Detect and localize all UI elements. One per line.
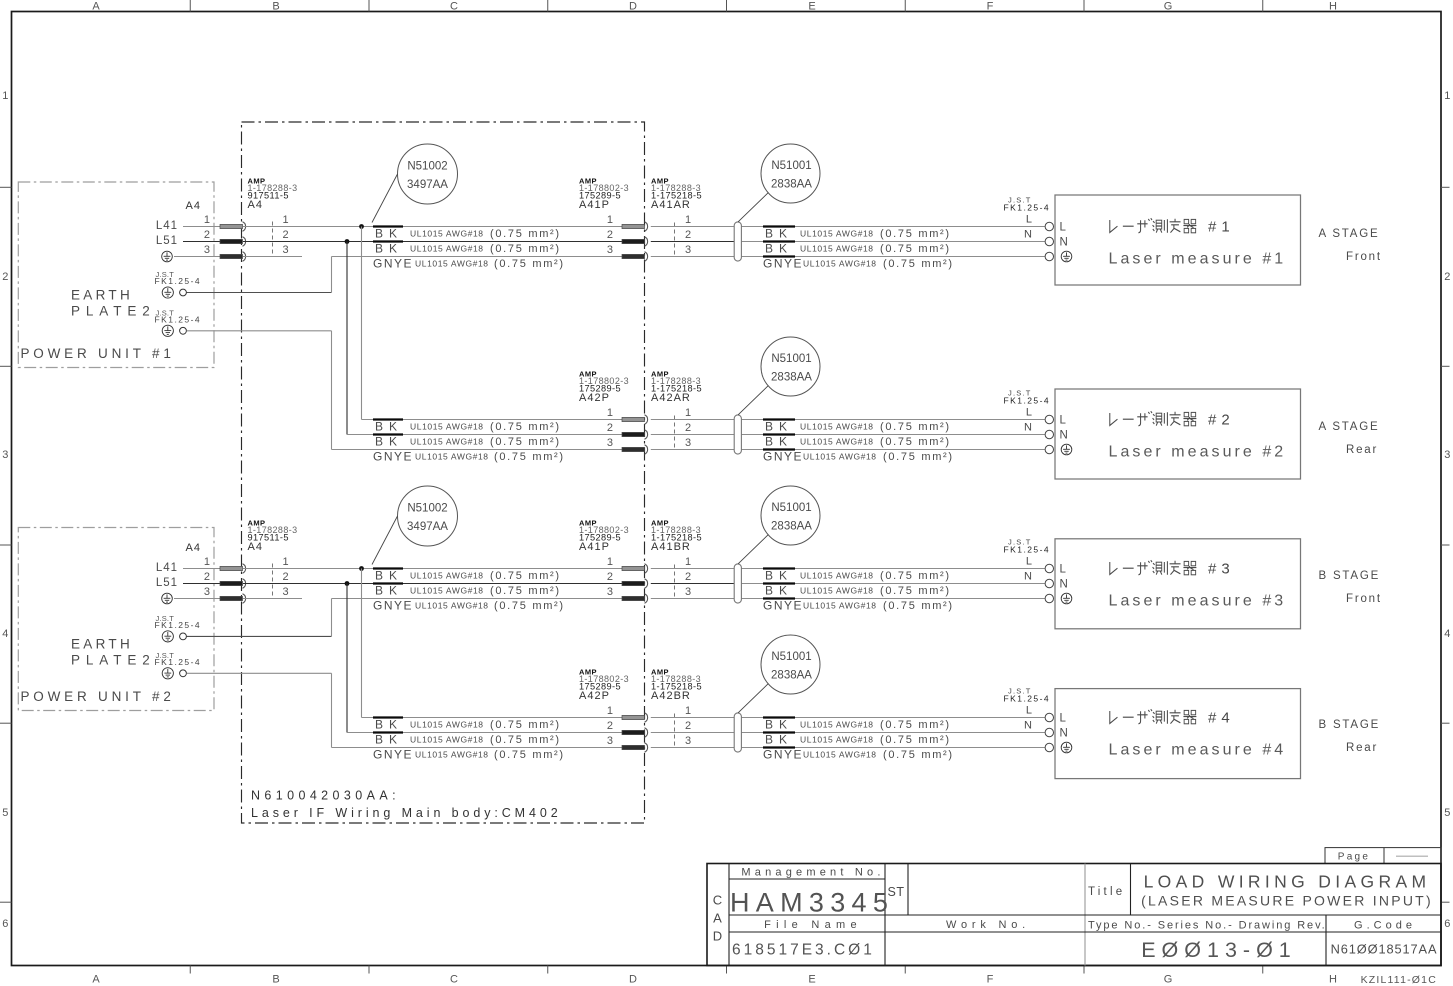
svg-text:1: 1 — [685, 556, 691, 568]
svg-text:(0.75 mm²): (0.75 mm²) — [490, 421, 561, 433]
terminal circle 2 laser measure #3 — [1045, 579, 1053, 587]
svg-text:Laser measure #4: Laser measure #4 — [1109, 742, 1287, 759]
label laser measure #3 japanese — [1110, 560, 1197, 575]
connector mating line A4 — [272, 564, 274, 597]
svg-text:UL1015 AWG#18: UL1015 AWG#18 — [410, 229, 484, 239]
leader line N51002 — [372, 516, 398, 565]
svg-text:#1: #1 — [1208, 219, 1235, 236]
svg-text:(0.75 mm²): (0.75 mm²) — [883, 258, 954, 270]
svg-text:B: B — [272, 1, 279, 13]
leader line N51001 group 4 — [738, 684, 768, 713]
svg-text:GNYE: GNYE — [373, 748, 413, 762]
svg-text:5: 5 — [1444, 807, 1450, 819]
svg-text:1: 1 — [685, 705, 691, 717]
svg-text:(0.75 mm²): (0.75 mm²) — [494, 749, 565, 761]
svg-text:UL1015 AWG#18: UL1015 AWG#18 — [410, 437, 484, 447]
svg-text:3: 3 — [282, 244, 288, 256]
svg-text:L: L — [1060, 415, 1067, 427]
svg-text:(0.75 mm²): (0.75 mm²) — [490, 228, 561, 240]
svg-text:3: 3 — [204, 244, 210, 256]
svg-text:3: 3 — [282, 586, 288, 598]
svg-text:BK: BK — [765, 435, 793, 449]
terminal circle 2 laser measure #1 — [1045, 237, 1053, 245]
connector A4 pin 2 — [220, 581, 243, 585]
svg-text:3: 3 — [1444, 449, 1450, 461]
connector A4 pin 3 — [220, 254, 243, 258]
svg-text:(0.75 mm²): (0.75 mm²) — [880, 734, 951, 746]
svg-text:1: 1 — [282, 214, 288, 226]
svg-text:BK: BK — [375, 227, 403, 241]
svg-text:UL1015 AWG#18: UL1015 AWG#18 — [800, 571, 874, 581]
svg-text:2: 2 — [685, 571, 691, 583]
wire BK N group 4 right — [651, 732, 734, 734]
svg-text:4: 4 — [2, 628, 8, 640]
svg-text:N: N — [1060, 579, 1068, 591]
svg-text:UL1015 AWG#18: UL1015 AWG#18 — [410, 244, 484, 254]
svg-text:UL1015 AWG#18: UL1015 AWG#18 — [803, 452, 877, 462]
connector A41P/A41BR pin 1 — [622, 566, 645, 570]
svg-text:UL1015 AWG#18: UL1015 AWG#18 — [415, 452, 489, 462]
cable bundle marker group 2 — [734, 415, 741, 454]
svg-text:1: 1 — [204, 214, 210, 226]
svg-text:A: A — [713, 911, 722, 926]
wire BK L group 3 right — [651, 568, 734, 570]
node circle N51001 2838AA group 1 — [761, 144, 820, 203]
earth symbol laser measure #3 — [1061, 593, 1072, 604]
wire earth terminal 1 to riser — [187, 635, 332, 637]
svg-text:UL1015 AWG#18: UL1015 AWG#18 — [800, 586, 874, 596]
svg-text:BK: BK — [765, 420, 793, 434]
wire GNYE riser earth terminal 2 to group2 — [331, 331, 333, 450]
wire L41 stub — [183, 568, 220, 570]
earth symbol laser measure #2 — [1061, 444, 1072, 455]
svg-text:L: L — [1026, 556, 1032, 568]
laser measure #4 box — [1055, 689, 1301, 779]
svg-text:C: C — [450, 974, 458, 986]
svg-text:N51002: N51002 — [407, 161, 447, 173]
svg-text:(0.75 mm²): (0.75 mm²) — [494, 600, 565, 612]
svg-text:1: 1 — [282, 556, 288, 568]
wire label BK L group 3 — [373, 567, 403, 569]
connector A42P/A42AR pin 3 — [622, 447, 645, 451]
svg-text:A STAGE: A STAGE — [1319, 421, 1380, 433]
svg-text:BK: BK — [375, 584, 403, 598]
wire GNYE riser earth terminal 2 to group4 — [331, 673, 333, 747]
laser measure #1 box — [1055, 195, 1301, 285]
svg-text:UL1015 AWG#18: UL1015 AWG#18 — [410, 735, 484, 745]
svg-text:D: D — [629, 1, 637, 13]
svg-text:KZIL111-Ø1C: KZIL111-Ø1C — [1361, 974, 1437, 986]
svg-text:N610042030AA:: N610042030AA: — [251, 789, 400, 803]
svg-text:GNYE: GNYE — [373, 599, 413, 613]
svg-text:BK: BK — [375, 733, 403, 747]
svg-text:LOAD WIRING DIAGRAM: LOAD WIRING DIAGRAM — [1144, 872, 1431, 892]
svg-text:ST: ST — [888, 885, 905, 899]
wire label BK group 2 right — [763, 418, 795, 420]
leader line N51001 group 3 — [738, 535, 768, 564]
wire earth terminal 1 to riser — [187, 292, 332, 294]
svg-text:UL1015 AWG#18: UL1015 AWG#18 — [415, 601, 489, 611]
wire label BK N group 3 — [373, 582, 403, 584]
node circle N51002 3497AA group 1 — [398, 144, 458, 204]
svg-text:H: H — [1329, 974, 1337, 986]
svg-text:UL1015 AWG#18: UL1015 AWG#18 — [800, 422, 874, 432]
connector A42P/A42BR pin 1 — [622, 715, 645, 719]
connector A4 pin 1 — [220, 566, 243, 570]
svg-text:(0.75 mm²): (0.75 mm²) — [883, 451, 954, 463]
svg-text:(0.75 mm²): (0.75 mm²) — [880, 570, 951, 582]
wire label BK group 2 right — [763, 433, 795, 435]
svg-text:(0.75 mm²): (0.75 mm²) — [880, 228, 951, 240]
wire GNYE riser group1 to earth terminal 1 — [331, 257, 333, 293]
svg-text:UL1015 AWG#18: UL1015 AWG#18 — [803, 750, 877, 760]
svg-text:UL1015 AWG#18: UL1015 AWG#18 — [800, 720, 874, 730]
label laser measure #1 japanese — [1110, 218, 1197, 233]
svg-text:L51: L51 — [156, 577, 178, 589]
svg-text:1: 1 — [607, 407, 613, 419]
svg-text:Work No.: Work No. — [946, 919, 1030, 931]
svg-text:F: F — [987, 1, 994, 13]
svg-text:2: 2 — [607, 422, 613, 434]
svg-text:File Name: File Name — [764, 919, 862, 931]
connector A42P/A42AR pin 1 — [622, 417, 645, 421]
junction node N group 1 — [345, 239, 350, 244]
terminal circle 3 laser measure #3 — [1045, 594, 1053, 602]
svg-text:1: 1 — [204, 556, 210, 568]
svg-text:L51: L51 — [156, 235, 178, 247]
wire GNYE group 2 from riser — [332, 449, 623, 451]
svg-text:GNYE: GNYE — [373, 450, 413, 464]
svg-text:A41BR: A41BR — [651, 541, 691, 553]
svg-text:5: 5 — [2, 807, 8, 819]
svg-text:BK: BK — [765, 569, 793, 583]
power unit #2 enclosure — [18, 528, 214, 711]
label laser measure #4 japanese — [1110, 709, 1197, 724]
svg-text:N: N — [1060, 237, 1068, 249]
connector A41P/A41BR pin 2 — [622, 581, 645, 585]
svg-text:2: 2 — [204, 571, 210, 583]
node circle N51001 2838AA group 4 — [761, 635, 820, 694]
svg-text:UL1015 AWG#18: UL1015 AWG#18 — [800, 229, 874, 239]
wire riser L to group 4 — [361, 569, 363, 718]
wire BK N circuit group 1 — [243, 241, 622, 243]
terminal circle 1 laser measure #2 — [1045, 415, 1053, 423]
wire label BK L group 2 — [373, 418, 403, 420]
svg-text:Rear: Rear — [1346, 742, 1378, 754]
leader line N51002 — [372, 174, 398, 223]
svg-text:UL1015 AWG#18: UL1015 AWG#18 — [415, 259, 489, 269]
connector A4 pin 2 — [220, 239, 243, 243]
svg-text:(0.75 mm²): (0.75 mm²) — [490, 436, 561, 448]
svg-text:618517E3.CØ1: 618517E3.CØ1 — [732, 942, 875, 959]
svg-text:G.Code: G.Code — [1354, 920, 1416, 932]
svg-text:D: D — [629, 974, 637, 986]
svg-text:(0.75 mm²): (0.75 mm²) — [490, 243, 561, 255]
svg-text:1: 1 — [2, 90, 8, 102]
svg-text:Laser measure #3: Laser measure #3 — [1109, 593, 1287, 610]
svg-text:3: 3 — [685, 735, 691, 747]
wire label BK group 3 right — [763, 582, 795, 584]
svg-text:(0.75 mm²): (0.75 mm²) — [490, 585, 561, 597]
svg-text:GNYE: GNYE — [763, 748, 803, 762]
svg-text:UL1015 AWG#18: UL1015 AWG#18 — [410, 586, 484, 596]
svg-text:BK: BK — [765, 718, 793, 732]
svg-text:FK1.25-4: FK1.25-4 — [155, 276, 202, 286]
svg-text:GNYE: GNYE — [763, 257, 803, 271]
svg-text:A41P: A41P — [579, 541, 610, 553]
ground symbol pin3 — [162, 251, 173, 262]
svg-text:BK: BK — [375, 718, 403, 732]
svg-text:A42AR: A42AR — [651, 392, 691, 404]
wire label BK group 3 right — [763, 567, 795, 569]
svg-text:BK: BK — [375, 569, 403, 583]
svg-text:GNYE: GNYE — [763, 599, 803, 613]
svg-text:C: C — [450, 1, 458, 13]
svg-text:FK1.25-4: FK1.25-4 — [155, 657, 202, 667]
svg-text:POWER UNIT #2: POWER UNIT #2 — [21, 689, 175, 704]
svg-text:UL1015 AWG#18: UL1015 AWG#18 — [803, 259, 877, 269]
wire label GNYE group 4 right — [763, 746, 795, 748]
svg-text:2: 2 — [204, 229, 210, 241]
svg-text:1: 1 — [1444, 90, 1450, 102]
svg-text:EARTH: EARTH — [71, 287, 133, 302]
svg-text:Front: Front — [1346, 251, 1382, 263]
svg-text:L: L — [1026, 214, 1032, 226]
svg-text:N: N — [1060, 728, 1068, 740]
svg-text:N51001: N51001 — [771, 160, 811, 172]
svg-text:N51001: N51001 — [771, 651, 811, 663]
svg-text:L41: L41 — [156, 220, 178, 232]
svg-text:N51001: N51001 — [771, 502, 811, 514]
wire BK L circuit group 3 (connector to mid connector) — [243, 568, 622, 570]
wire label BK N group 2 — [373, 433, 403, 435]
junction node L group 3 — [359, 566, 364, 571]
svg-text:#2: #2 — [1208, 412, 1235, 429]
svg-text:UL1015 AWG#18: UL1015 AWG#18 — [800, 437, 874, 447]
svg-text:L: L — [1026, 705, 1032, 717]
svg-text:FK1.25-4: FK1.25-4 — [155, 620, 202, 630]
wire GNYE group 4 from riser — [332, 747, 623, 749]
svg-text:2: 2 — [607, 720, 613, 732]
terminal circle 2 laser measure #2 — [1045, 430, 1053, 438]
wire GNYE group 4 right — [651, 747, 734, 749]
svg-text:(0.75 mm²): (0.75 mm²) — [880, 243, 951, 255]
svg-text:BK: BK — [765, 242, 793, 256]
svg-text:1: 1 — [607, 705, 613, 717]
svg-text:(0.75 mm²): (0.75 mm²) — [880, 421, 951, 433]
wire pin3 stub right group 3 — [243, 598, 302, 600]
connector mating line A41AR — [674, 223, 676, 255]
svg-text:(0.75 mm²): (0.75 mm²) — [883, 600, 954, 612]
svg-text:(0.75 mm²): (0.75 mm²) — [490, 570, 561, 582]
svg-text:3: 3 — [607, 244, 613, 256]
svg-text:B STAGE: B STAGE — [1319, 719, 1381, 731]
connector mating line A41BR — [674, 565, 676, 597]
svg-text:POWER UNIT #1: POWER UNIT #1 — [21, 346, 175, 361]
wire label GNYE group 1 right — [763, 255, 795, 257]
wire label BK group 1 right — [763, 225, 795, 227]
svg-text:E: E — [808, 1, 815, 13]
svg-text:A4: A4 — [186, 200, 201, 212]
svg-text:A STAGE: A STAGE — [1319, 228, 1380, 240]
node circle N51001 2838AA group 3 — [761, 486, 820, 545]
svg-text:2: 2 — [685, 720, 691, 732]
wire GNYE group 1 — [332, 256, 623, 258]
terminal circle 2 laser measure #4 — [1045, 728, 1053, 736]
wire label BK group 4 right — [763, 716, 795, 718]
svg-text:(0.75 mm²): (0.75 mm²) — [880, 719, 951, 731]
wire BK L group 2 right — [651, 419, 734, 421]
svg-text:4: 4 — [1444, 628, 1450, 640]
svg-text:UL1015 AWG#18: UL1015 AWG#18 — [800, 244, 874, 254]
svg-text:FK1.25-4: FK1.25-4 — [155, 314, 202, 324]
power unit #1 enclosure — [18, 182, 214, 368]
connector mating line A42BR — [674, 714, 676, 746]
svg-text:UL1015 AWG#18: UL1015 AWG#18 — [410, 422, 484, 432]
svg-text:3497AA: 3497AA — [407, 179, 448, 191]
wire BK N group 4 from riser — [347, 732, 622, 734]
wire GNYE riser group3 to earth terminal 1 — [331, 599, 333, 637]
terminal circle 1 laser measure #3 — [1045, 564, 1053, 572]
svg-text:2838AA: 2838AA — [771, 372, 812, 384]
svg-text:FK1.25-4: FK1.25-4 — [1004, 545, 1051, 555]
title block — [707, 864, 1441, 966]
svg-text:Title: Title — [1088, 886, 1125, 898]
wire L41 stub — [183, 226, 220, 228]
laser measure #2 box — [1055, 389, 1301, 479]
svg-text:EARTH: EARTH — [71, 636, 133, 651]
connector A4 pin 3 — [220, 596, 243, 600]
terminal circle 3 laser measure #1 — [1045, 252, 1053, 260]
svg-text:PLATE2: PLATE2 — [71, 303, 156, 318]
wire BK L group 1 right — [651, 226, 734, 228]
junction node N group 3 — [345, 581, 350, 586]
wire BK N group 2 from riser — [347, 434, 622, 436]
svg-text:L: L — [1060, 564, 1067, 576]
svg-text:#3: #3 — [1208, 561, 1235, 578]
connector A41P/A41AR pin 1 — [622, 224, 645, 228]
svg-text:A41AR: A41AR — [651, 199, 691, 211]
wire BK N group 2 right — [651, 434, 734, 436]
svg-text:A: A — [92, 974, 100, 986]
svg-text:3: 3 — [685, 437, 691, 449]
cable bundle marker group 1 — [734, 222, 741, 261]
wire riser L to group 2 — [361, 227, 363, 420]
svg-text:2838AA: 2838AA — [771, 179, 812, 191]
connector A42P/A42BR pin 2 — [622, 730, 645, 734]
svg-text:Front: Front — [1346, 593, 1382, 605]
junction node L group 1 — [359, 224, 364, 229]
svg-text:A4: A4 — [248, 199, 263, 211]
svg-text:Laser measure #2: Laser measure #2 — [1109, 444, 1287, 461]
svg-text:N: N — [1060, 430, 1068, 442]
connector A4 pin 1 — [220, 224, 243, 228]
connector A42P/A42AR pin 2 — [622, 432, 645, 436]
connector mating line A4 — [272, 222, 274, 255]
svg-text:2: 2 — [685, 229, 691, 241]
svg-text:6: 6 — [2, 918, 8, 930]
svg-text:3: 3 — [685, 244, 691, 256]
cable bundle marker group 3 — [734, 564, 741, 603]
svg-text:Laser measure #1: Laser measure #1 — [1109, 251, 1287, 268]
svg-text:A4: A4 — [186, 542, 201, 554]
svg-text:2: 2 — [607, 229, 613, 241]
svg-text:BK: BK — [375, 420, 403, 434]
svg-text:2: 2 — [1444, 271, 1450, 283]
wire label BK group 1 right — [763, 240, 795, 242]
wire riser N to group 2 — [346, 242, 348, 435]
svg-text:2838AA: 2838AA — [771, 670, 812, 682]
svg-text:3: 3 — [204, 586, 210, 598]
svg-text:(0.75 mm²): (0.75 mm²) — [490, 719, 561, 731]
terminal circle 1 laser measure #4 — [1045, 713, 1053, 721]
svg-text:E: E — [808, 974, 815, 986]
svg-text:N: N — [1024, 229, 1032, 241]
wire label GNYE group 2 right — [763, 448, 795, 450]
svg-text:3497AA: 3497AA — [407, 521, 448, 533]
svg-text:(0.75 mm²): (0.75 mm²) — [883, 749, 954, 761]
svg-text:2: 2 — [282, 229, 288, 241]
svg-text:Management No.: Management No. — [741, 866, 884, 878]
wire earth terminal 2 to riser — [187, 672, 332, 674]
connector mating line A42AR — [674, 416, 676, 448]
node circle N51002 3497AA group 3 — [398, 486, 458, 546]
wire GNYE group 1 right — [651, 256, 734, 258]
svg-text:N51002: N51002 — [407, 503, 447, 515]
svg-text:L41: L41 — [156, 562, 178, 574]
svg-text:3: 3 — [607, 437, 613, 449]
wire L51 stub — [183, 583, 220, 585]
leader line N51001 group 2 — [738, 386, 768, 415]
svg-text:N: N — [1024, 422, 1032, 434]
connector A41P/A41AR pin 3 — [622, 254, 645, 258]
svg-text:1: 1 — [607, 214, 613, 226]
svg-text:L: L — [1060, 222, 1067, 234]
svg-text:GNYE: GNYE — [373, 257, 413, 271]
wire BK N group 3 right — [651, 583, 734, 585]
svg-text:PLATE2: PLATE2 — [71, 652, 156, 667]
terminal circle 3 laser measure #4 — [1045, 743, 1053, 751]
svg-text:A4: A4 — [248, 541, 263, 553]
wire L51 stub — [183, 241, 220, 243]
wire pin3 stub right group 1 — [243, 256, 302, 258]
svg-text:UL1015 AWG#18: UL1015 AWG#18 — [803, 601, 877, 611]
svg-text:(0.75 mm²): (0.75 mm²) — [494, 258, 565, 270]
svg-text:3: 3 — [2, 449, 8, 461]
cable bundle marker group 4 — [734, 713, 741, 752]
svg-text:UL1015 AWG#18: UL1015 AWG#18 — [410, 720, 484, 730]
earth symbol laser measure #4 — [1061, 742, 1072, 753]
svg-text:N: N — [1024, 720, 1032, 732]
svg-text:A41P: A41P — [579, 199, 610, 211]
svg-text:1: 1 — [685, 214, 691, 226]
earth symbol laser measure #1 — [1061, 251, 1072, 262]
svg-text:2: 2 — [282, 571, 288, 583]
svg-text:2: 2 — [607, 571, 613, 583]
wire BK L group 2 from riser — [362, 419, 623, 421]
svg-text:B: B — [272, 974, 279, 986]
connector A42P/A42BR pin 3 — [622, 745, 645, 749]
svg-text:H: H — [1329, 1, 1337, 13]
wire label BK group 4 right — [763, 731, 795, 733]
wire label BK N group 1 — [373, 240, 403, 242]
page box — [1325, 848, 1441, 864]
svg-text:UL1015 AWG#18: UL1015 AWG#18 — [800, 735, 874, 745]
svg-text:BK: BK — [375, 435, 403, 449]
svg-text:UL1015 AWG#18: UL1015 AWG#18 — [410, 571, 484, 581]
svg-text:HAM3345: HAM3345 — [730, 888, 894, 918]
connector A41P/A41BR pin 3 — [622, 596, 645, 600]
